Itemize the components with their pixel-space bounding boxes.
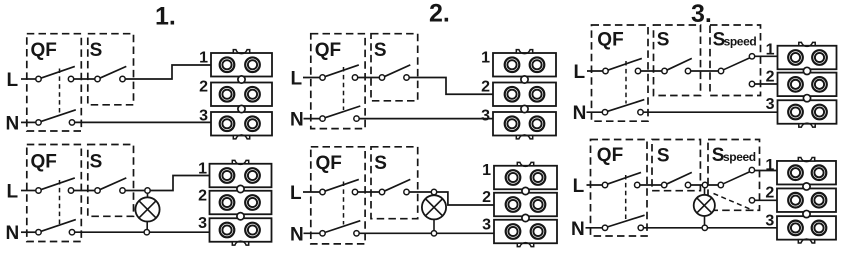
s3-top wire S to Sspeed [689,70,720,72]
svg-text:1: 1 [198,161,207,178]
s1-bot lamp stub top [147,192,149,198]
s3-bot wire L feed [587,184,604,186]
svg-text:QF: QF [31,40,57,61]
s3-top wire N to terminal 3 [642,111,779,113]
s2-top label QF [315,40,341,61]
s1-top wire L QF-to-S [72,78,96,80]
s2-top switch S [379,65,410,80]
s3-bot wire N to terminal 3 [642,227,778,229]
s2-bot breaker QF box [311,147,365,244]
s2-bot terminal block [494,162,557,246]
s2-bot breaker QF linkage [343,182,345,225]
s3-top wire L feed [587,70,604,72]
s1-bot lamp EL [135,197,159,221]
s3-bot node lamp-L [702,182,707,187]
s1-top breaker QF pole N [36,110,76,125]
s1-bot wire S output to terminal 1 [124,176,211,191]
svg-text:N: N [290,224,304,245]
s1-bot label QF [31,152,57,173]
heading 1. [155,3,176,31]
s2-bot label L [290,183,302,204]
s2-bot wire N to terminal 3 [358,232,496,234]
s1-top wire L feed [21,78,37,80]
s2-top wire N feed [304,118,322,120]
s2-top terminal 1 label [481,50,490,67]
svg-text:3: 3 [766,96,775,113]
s2-bot lamp stub bottom [433,219,435,232]
s1-top label N [6,113,20,134]
svg-text:QF: QF [315,40,341,61]
s2-bot wire N feed [304,232,322,234]
s3-bot lamp stub top [704,187,706,196]
s1-bot breaker QF pole L [36,178,75,193]
s3-bot node lamp-N [702,225,707,230]
s3-bot label S [657,145,670,166]
s2-top terminal block [493,50,556,139]
svg-text:S: S [90,40,103,61]
s3-bot switch S box [652,140,700,191]
svg-text:S: S [374,153,387,174]
svg-text:1.: 1. [155,3,176,31]
s3-bot lamp EL [694,195,715,216]
heading 3. [691,0,712,28]
s1-top switch S [95,66,127,81]
s1-bot lamp stub bottom [146,221,148,231]
s2-top wire S output to terminal 2 [408,78,494,95]
svg-text:2: 2 [481,79,490,96]
svg-text:2: 2 [199,79,208,96]
s3-top breaker QF pole N [602,100,644,115]
s1-bot label L [7,182,19,203]
s1-top terminal 1 label [199,50,208,67]
svg-text:S: S [90,152,103,173]
s3-bot wire S to node to Sspeed [689,184,720,186]
s3-bot lamp stub bottom [704,215,706,226]
s3-bot breaker QF linkage [625,175,627,219]
s2-top wire L feed [303,77,321,79]
svg-text:2.: 2. [429,0,450,28]
s3-bot terminal 3 label [765,212,774,229]
s2-bot terminal 3 label [482,217,491,234]
s2-bot label N [290,224,304,245]
s1-top wire N to terminal 3 [73,121,212,123]
s1-top breaker QF pole L [36,66,75,81]
s3-top breaker QF linkage [625,61,627,104]
svg-text:1: 1 [482,162,491,179]
s3-top breaker QF box [592,25,649,121]
s3-top wire Sspeed pos1 to terminal 1 [754,55,779,57]
s3-bot terminal 1 label [765,157,774,174]
svg-text:N: N [573,103,587,124]
svg-text:L: L [573,176,585,197]
s1-bot wire N to terminal 3 [73,231,211,233]
s2-top breaker QF box [311,34,365,129]
s3-bot breaker QF pole L [602,172,641,187]
svg-text:speed: speed [723,150,756,164]
svg-text:S: S [657,145,670,166]
s3-bot breaker QF pole N [602,215,644,230]
s1-bot switch S [95,178,127,193]
svg-text:3: 3 [199,108,208,125]
s3-top switch S box [654,25,701,96]
svg-text:3: 3 [198,215,207,232]
svg-text:QF: QF [597,29,623,50]
s3-bot speed selector arm pos1 [718,167,755,187]
s2-top switch S box [371,34,418,101]
s1-top breaker QF box [27,34,82,131]
s1-bot wire L feed [21,190,37,192]
svg-text:2: 2 [766,69,775,86]
s3-top terminal 2 label [766,69,775,86]
s3-top speed selector arm [718,54,754,87]
s3-top wire L QF-to-S [639,70,663,72]
s2-bot switch S [379,179,410,194]
s2-top breaker QF pole L [320,65,359,80]
s2-bot wire node to terminal 2 [435,192,495,205]
s2-bot switch S box [371,147,418,219]
svg-text:S: S [374,40,387,61]
svg-text:1: 1 [765,157,774,174]
s2-bot wire S output to node [408,191,433,193]
s3-bot terminal block [777,158,836,244]
svg-text:1: 1 [766,42,775,59]
s1-bot label N [6,223,20,244]
svg-text:L: L [291,69,303,90]
s1-top terminal 3 label [199,108,208,125]
svg-text:QF: QF [316,153,342,174]
s2-bot node lamp-L [431,189,436,194]
s2-bot breaker QF pole N [320,221,361,236]
s3-bot speed selector box [708,140,760,211]
s1-top breaker QF linkage [59,69,61,114]
s2-top terminal 3 label [481,108,490,125]
s3-bot terminal 2 label [765,184,774,201]
s2-top wire L QF-to-S [356,77,381,79]
s3-top label QF [597,29,623,50]
svg-text:QF: QF [31,152,57,173]
s1-top label L [7,70,19,91]
s3-top terminal 3 label [766,96,775,113]
s3-top switch S [662,58,692,73]
s3-bot switch S [662,172,692,187]
svg-text:speed: speed [724,35,757,49]
s3-bot wire Sspeed pos1 to terminal 1 [754,170,778,172]
svg-text:L: L [7,182,19,203]
s3-bot wire L QF-to-S [639,184,663,186]
s3-top wire terminal 2 stub [754,83,779,85]
svg-text:2: 2 [198,188,207,205]
svg-text:L: L [574,62,586,83]
s3-top label S [657,30,670,51]
s3-bot breaker QF box [591,140,648,237]
s2-top breaker QF linkage [343,67,345,110]
s1-bot wire N feed [21,231,37,233]
svg-text:3.: 3. [691,0,712,28]
s1-bot breaker QF linkage [59,180,61,225]
s2-top label L [291,69,303,90]
s3-top terminal block [778,42,837,127]
svg-text:N: N [6,223,20,244]
s2-bot node lamp-N [431,231,436,236]
s2-bot terminal 2 label [482,189,491,206]
s1-top terminal block [211,50,272,139]
svg-text:3: 3 [481,108,490,125]
s3-bot speed selector dashed arm pos2 [714,194,755,211]
s3-top terminal 1 label [766,42,775,59]
s2-top wire N to terminal 3 [358,118,495,120]
s3-top label N [573,103,587,124]
s3-bot label L [573,176,585,197]
s1-bot label S [90,152,103,173]
svg-text:S: S [657,30,670,51]
svg-text:QF: QF [597,145,623,166]
s1-bot terminal 2 label [198,188,207,205]
s2-bot wire L feed [303,191,321,193]
s1-bot terminal 1 label [198,161,207,178]
s2-bot label QF [316,153,342,174]
s1-top label S [90,40,103,61]
s1-bot breaker QF pole N [36,220,76,235]
heading 2. [429,0,450,28]
s1-top label QF [31,40,57,61]
s1-top wire N feed [21,121,37,123]
s3-top label Sspeed [713,30,757,51]
s3-bot wire pos2 to terminal 2 [754,199,778,201]
svg-text:N: N [571,219,585,240]
s2-bot terminal 1 label [482,162,491,179]
svg-text:1: 1 [199,50,208,67]
svg-text:1: 1 [481,50,490,67]
s1-bot switch S box [88,145,134,217]
svg-text:L: L [290,183,302,204]
svg-text:3: 3 [765,212,774,229]
s2-bot lamp EL [422,195,446,219]
s3-bot label N [571,219,585,240]
s2-top label S [374,40,387,61]
s1-bot breaker QF box [27,145,82,242]
s3-bot wire N feed [586,227,604,229]
s2-bot breaker QF pole L [320,179,359,194]
svg-text:3: 3 [482,217,491,234]
s2-top terminal 2 label [481,79,490,96]
s1-bot node lamp-N [144,230,149,235]
s1-top terminal 2 label [199,79,208,96]
s1-top switch S box [88,34,134,105]
s3-bot label QF [597,145,623,166]
s1-bot node lamp-L [145,188,150,193]
s3-top label L [574,62,586,83]
s3-top speed selector box [710,25,761,96]
s1-top wire S output to terminal 1 [124,65,212,79]
svg-text:2: 2 [765,184,774,201]
svg-text:L: L [7,70,19,91]
s3-top wire N feed [587,111,604,113]
s3-bot label Sspeed [712,145,756,166]
s2-bot wire L QF-to-S [356,191,381,193]
s3-top breaker QF pole L [603,58,642,73]
s1-bot terminal block [210,160,272,245]
svg-text:N: N [6,113,20,134]
s1-bot wire L QF-to-S [72,190,96,192]
s1-bot terminal 3 label [198,215,207,232]
s2-top breaker QF pole N [320,106,361,121]
svg-text:N: N [290,110,304,131]
s2-top label N [290,110,304,131]
s2-bot label S [374,153,387,174]
svg-text:2: 2 [482,189,491,206]
